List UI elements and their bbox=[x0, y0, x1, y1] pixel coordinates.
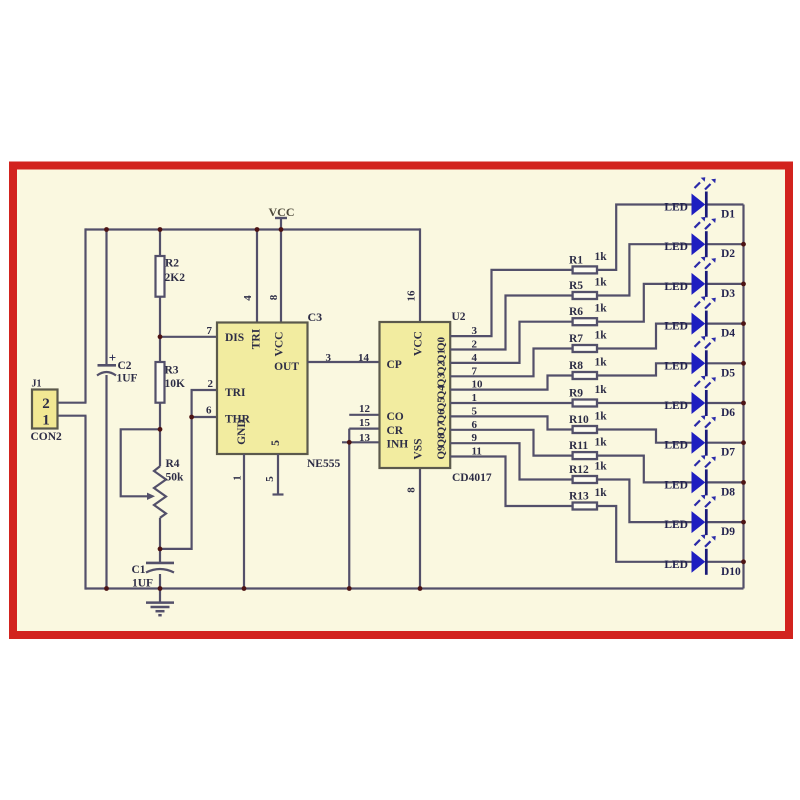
svg-text:1k: 1k bbox=[595, 384, 608, 396]
svg-text:D9: D9 bbox=[721, 526, 735, 538]
svg-text:LED: LED bbox=[664, 400, 688, 412]
svg-text:9: 9 bbox=[472, 432, 478, 444]
svg-text:LED: LED bbox=[664, 519, 688, 531]
svg-text:LED: LED bbox=[664, 360, 688, 372]
svg-text:Q6: Q6 bbox=[436, 409, 448, 424]
svg-text:D7: D7 bbox=[721, 447, 735, 459]
svg-text:LED: LED bbox=[664, 440, 688, 452]
svg-text:1k: 1k bbox=[595, 411, 608, 423]
svg-text:1k: 1k bbox=[595, 487, 608, 499]
svg-text:6: 6 bbox=[206, 405, 212, 417]
svg-text:GND: GND bbox=[236, 419, 248, 445]
svg-text:11: 11 bbox=[472, 446, 482, 458]
svg-text:D4: D4 bbox=[721, 328, 735, 340]
svg-text:VCC: VCC bbox=[269, 205, 295, 219]
svg-text:10K: 10K bbox=[165, 378, 186, 390]
svg-text:+: + bbox=[109, 350, 116, 365]
svg-text:OUT: OUT bbox=[274, 361, 299, 373]
svg-text:5: 5 bbox=[472, 405, 478, 417]
svg-text:10: 10 bbox=[472, 379, 484, 391]
svg-text:R9: R9 bbox=[569, 387, 583, 399]
svg-text:Q3: Q3 bbox=[436, 373, 448, 388]
svg-text:LED: LED bbox=[664, 559, 688, 571]
svg-text:CO: CO bbox=[387, 411, 404, 423]
svg-text:Q1: Q1 bbox=[436, 349, 448, 363]
svg-text:8: 8 bbox=[406, 487, 418, 493]
svg-text:U2: U2 bbox=[452, 311, 466, 323]
svg-text:5: 5 bbox=[270, 440, 282, 446]
svg-text:C3: C3 bbox=[308, 310, 323, 324]
svg-text:6: 6 bbox=[472, 419, 478, 431]
svg-text:1k: 1k bbox=[595, 437, 608, 449]
svg-text:D8: D8 bbox=[721, 486, 735, 498]
svg-text:VCC: VCC bbox=[274, 332, 286, 357]
svg-text:Q0: Q0 bbox=[436, 336, 448, 351]
svg-text:R6: R6 bbox=[569, 306, 583, 318]
svg-text:1k: 1k bbox=[595, 357, 608, 369]
svg-text:1k: 1k bbox=[595, 277, 608, 289]
svg-text:LED: LED bbox=[664, 241, 688, 253]
svg-text:12: 12 bbox=[359, 403, 371, 415]
svg-text:R13: R13 bbox=[569, 490, 589, 502]
svg-text:NE555: NE555 bbox=[307, 458, 340, 470]
svg-text:Q4: Q4 bbox=[436, 385, 448, 400]
svg-text:14: 14 bbox=[358, 352, 370, 364]
svg-text:2: 2 bbox=[208, 378, 214, 390]
svg-text:CD4017: CD4017 bbox=[452, 472, 492, 484]
svg-text:R3: R3 bbox=[165, 365, 179, 377]
svg-text:2: 2 bbox=[42, 396, 50, 412]
svg-text:1: 1 bbox=[232, 475, 244, 481]
svg-text:TRI: TRI bbox=[251, 328, 263, 349]
svg-text:D5: D5 bbox=[721, 367, 735, 379]
svg-text:Q2: Q2 bbox=[436, 361, 448, 376]
svg-text:13: 13 bbox=[359, 432, 371, 444]
svg-text:LED: LED bbox=[664, 321, 688, 333]
svg-text:15: 15 bbox=[359, 417, 371, 429]
svg-text:R11: R11 bbox=[569, 440, 588, 452]
svg-text:3: 3 bbox=[472, 325, 478, 337]
svg-text:LED: LED bbox=[664, 479, 688, 491]
svg-text:R12: R12 bbox=[569, 464, 589, 476]
svg-text:Q5: Q5 bbox=[436, 397, 448, 412]
svg-text:C1: C1 bbox=[132, 564, 146, 576]
svg-text:3: 3 bbox=[326, 352, 332, 364]
svg-text:R5: R5 bbox=[569, 280, 583, 292]
svg-text:Q8: Q8 bbox=[436, 433, 448, 448]
svg-text:CON2: CON2 bbox=[31, 431, 63, 443]
svg-text:1UF: 1UF bbox=[132, 578, 153, 590]
svg-text:CR: CR bbox=[387, 425, 404, 437]
svg-text:TRI: TRI bbox=[225, 387, 246, 399]
svg-text:R10: R10 bbox=[569, 414, 589, 426]
svg-text:2: 2 bbox=[472, 339, 478, 351]
svg-text:LED: LED bbox=[664, 202, 688, 214]
svg-text:16: 16 bbox=[406, 290, 418, 302]
svg-text:R2: R2 bbox=[165, 258, 179, 270]
svg-text:8: 8 bbox=[268, 294, 280, 300]
svg-text:D1: D1 bbox=[721, 209, 735, 221]
svg-text:1k: 1k bbox=[595, 303, 608, 315]
svg-text:CP: CP bbox=[387, 359, 402, 371]
svg-text:J1: J1 bbox=[32, 379, 42, 390]
svg-text:VCC: VCC bbox=[413, 331, 425, 356]
svg-text:5: 5 bbox=[264, 476, 276, 482]
svg-text:1k: 1k bbox=[595, 251, 608, 263]
svg-text:D6: D6 bbox=[721, 407, 735, 419]
svg-text:C2: C2 bbox=[118, 360, 132, 372]
svg-text:R7: R7 bbox=[569, 333, 583, 345]
svg-text:4: 4 bbox=[242, 295, 254, 301]
svg-text:1: 1 bbox=[42, 413, 50, 429]
svg-text:1: 1 bbox=[472, 392, 478, 404]
svg-text:7: 7 bbox=[207, 325, 213, 337]
svg-text:1k: 1k bbox=[595, 330, 608, 342]
svg-text:2K2: 2K2 bbox=[165, 272, 186, 284]
svg-text:R4: R4 bbox=[166, 458, 180, 470]
svg-text:7: 7 bbox=[472, 365, 478, 377]
svg-text:R8: R8 bbox=[569, 360, 583, 372]
svg-text:DIS: DIS bbox=[225, 332, 244, 344]
svg-text:VSS: VSS bbox=[413, 438, 425, 459]
svg-text:50k: 50k bbox=[166, 472, 185, 484]
svg-text:INH: INH bbox=[387, 439, 409, 451]
svg-text:Q7: Q7 bbox=[436, 421, 448, 436]
svg-text:1UF: 1UF bbox=[117, 373, 138, 385]
svg-text:Q9: Q9 bbox=[436, 445, 448, 460]
svg-text:LED: LED bbox=[664, 281, 688, 293]
svg-text:1k: 1k bbox=[595, 461, 608, 473]
svg-text:D10: D10 bbox=[721, 566, 741, 578]
svg-text:D3: D3 bbox=[721, 288, 735, 300]
svg-text:4: 4 bbox=[472, 352, 478, 364]
svg-text:D2: D2 bbox=[721, 248, 735, 260]
svg-text:R1: R1 bbox=[569, 254, 583, 266]
